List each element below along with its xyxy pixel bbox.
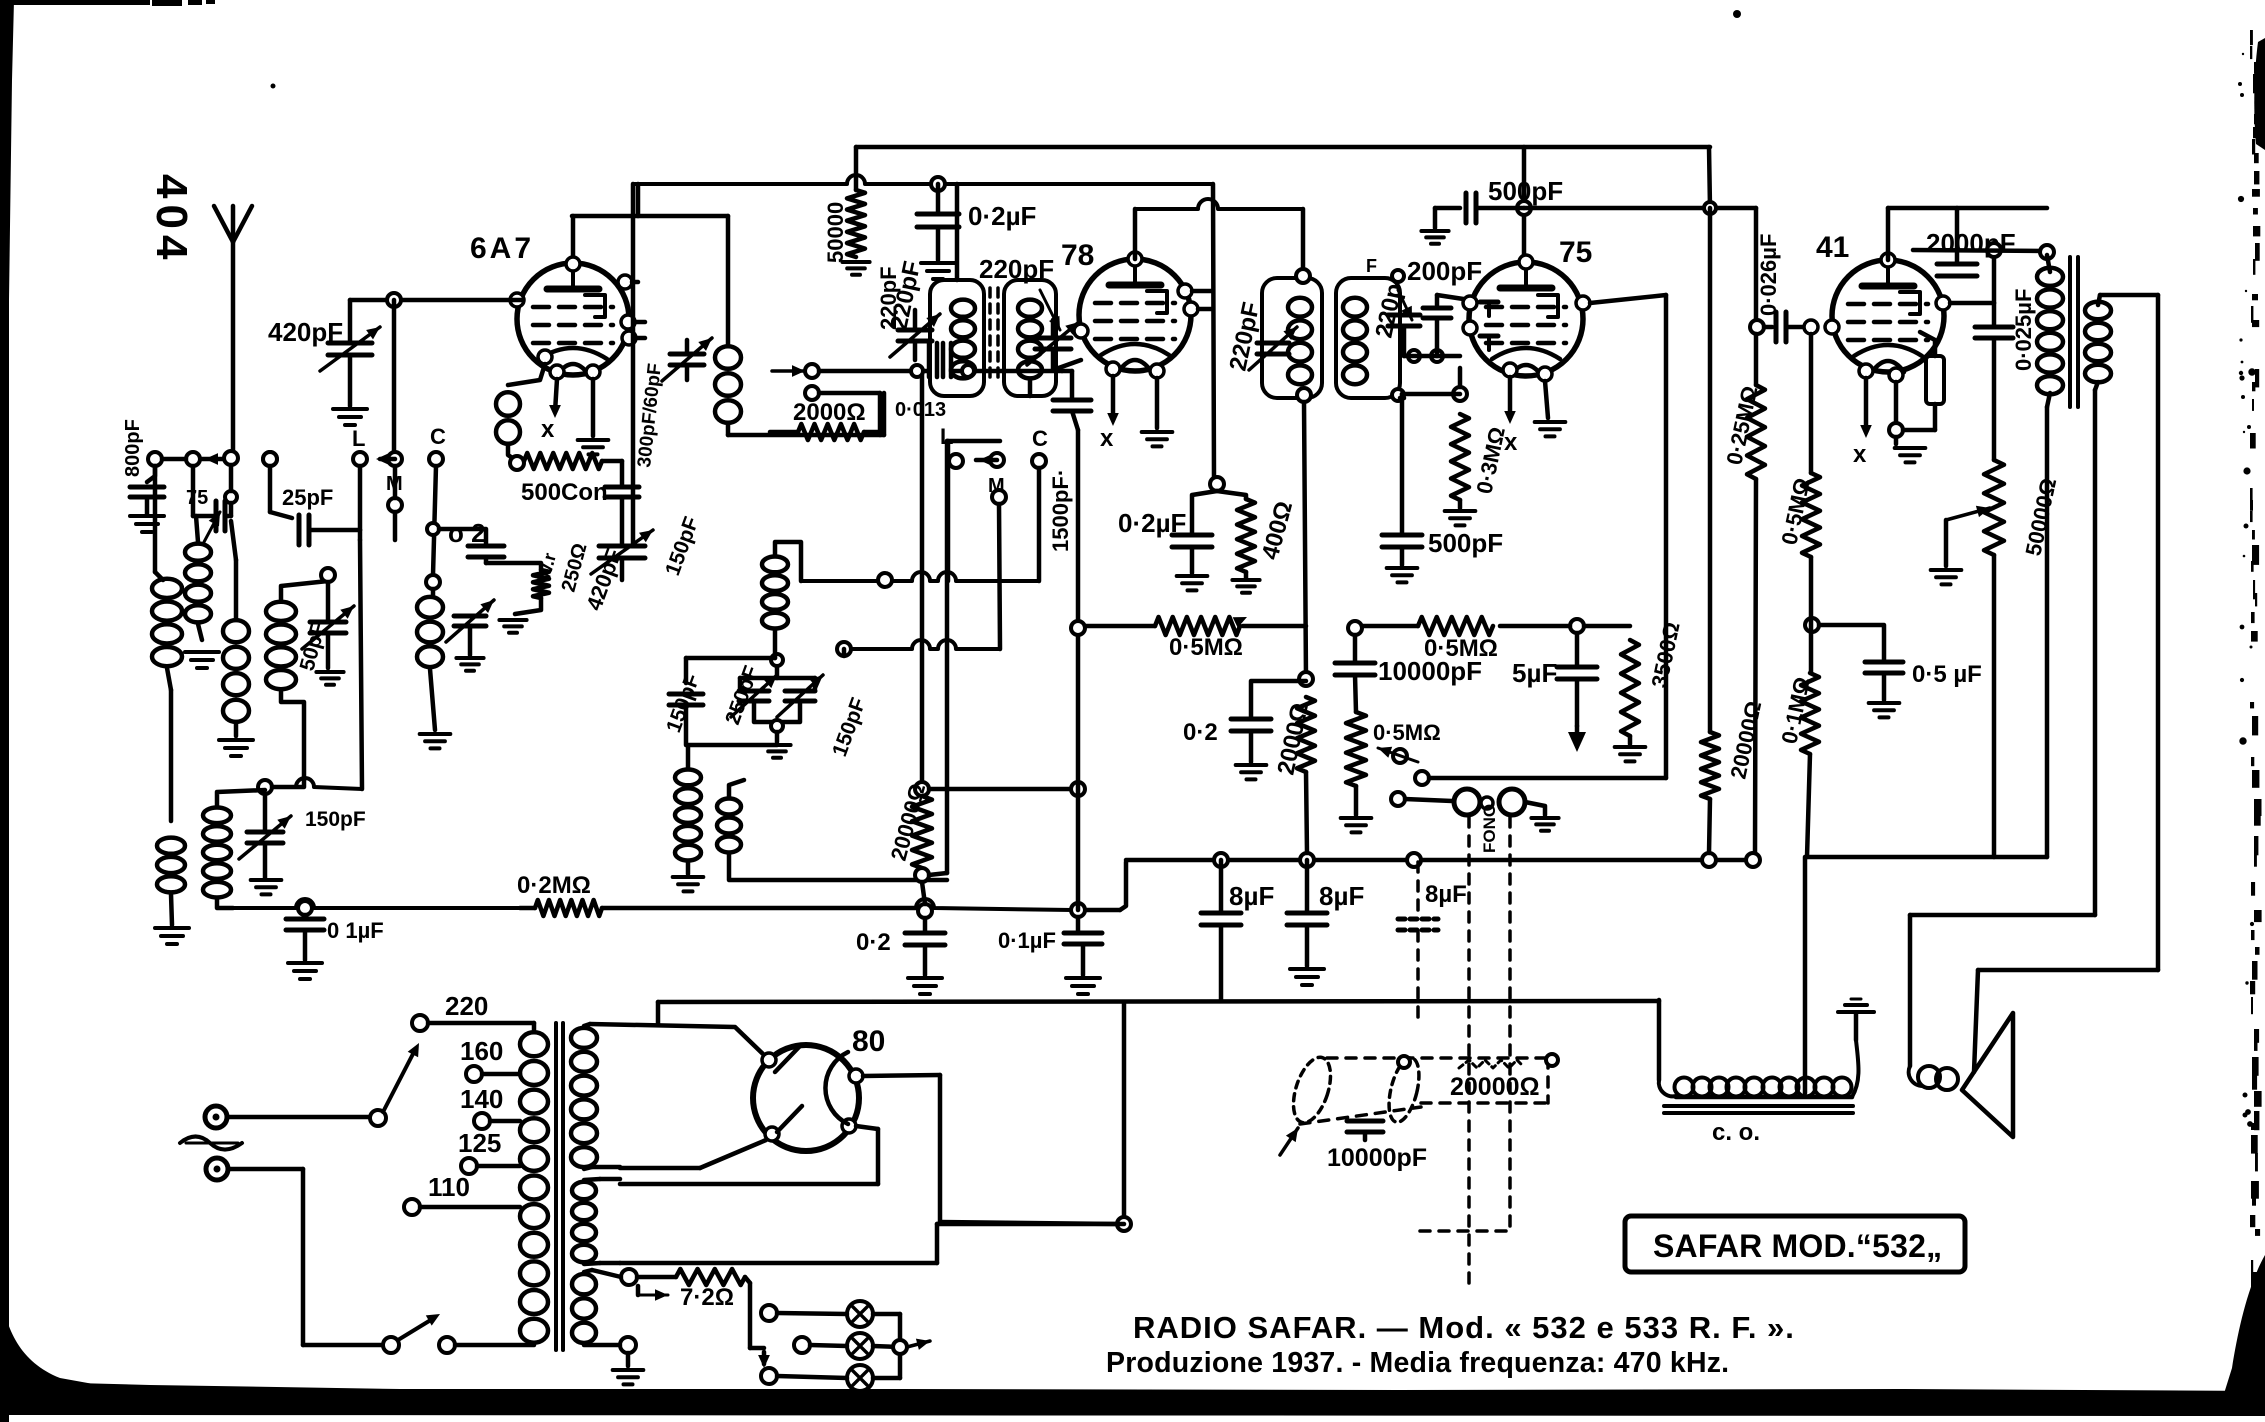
svg-text:x: x — [541, 416, 555, 443]
svg-text:C: C — [430, 424, 446, 449]
svg-text:500pF: 500pF — [1428, 528, 1503, 558]
svg-text:10000pF: 10000pF — [1378, 656, 1482, 686]
svg-text:25pF: 25pF — [282, 485, 333, 510]
svg-text:10000pF: 10000pF — [1327, 1144, 1427, 1172]
svg-text:0·2MΩ: 0·2MΩ — [517, 872, 591, 899]
svg-text:0·5MΩ: 0·5MΩ — [1373, 720, 1441, 745]
svg-text:0·025µF: 0·025µF — [2011, 289, 2036, 371]
svg-text:75: 75 — [1559, 236, 1592, 269]
svg-text:FONO: FONO — [1480, 804, 1499, 853]
svg-text:0·026µF: 0·026µF — [1756, 234, 1781, 316]
svg-text:80: 80 — [852, 1025, 885, 1058]
svg-text:c. o.: c. o. — [1712, 1119, 1760, 1146]
svg-text:420pF: 420pF — [268, 317, 343, 347]
svg-text:x: x — [1853, 441, 1867, 468]
svg-text:0·5MΩ: 0·5MΩ — [1169, 634, 1243, 661]
svg-text:78: 78 — [1061, 239, 1094, 272]
svg-text:0·2µF: 0·2µF — [1118, 508, 1186, 538]
svg-text:RADIO SAFAR. — Mod. « 532 e 53: RADIO SAFAR. — Mod. « 532 e 533 R. F. ». — [1133, 1310, 1795, 1345]
svg-text:C: C — [1032, 426, 1048, 451]
svg-text:125: 125 — [458, 1128, 501, 1158]
svg-text:8µF: 8µF — [1425, 881, 1467, 908]
svg-text:8µF: 8µF — [1229, 881, 1274, 911]
svg-text:41: 41 — [1816, 231, 1849, 264]
svg-text:0·2: 0·2 — [1183, 719, 1218, 746]
svg-text:7·2Ω: 7·2Ω — [680, 1284, 734, 1311]
svg-text:8µF: 8µF — [1319, 881, 1364, 911]
svg-text:220: 220 — [445, 991, 488, 1021]
svg-text:0·2µF: 0·2µF — [968, 201, 1036, 231]
svg-text:150pF: 150pF — [305, 808, 366, 831]
svg-text:SAFAR MOD.“532„: SAFAR MOD.“532„ — [1653, 1228, 1942, 1264]
svg-text:20000Ω: 20000Ω — [1450, 1073, 1540, 1101]
svg-text:0·2: 0·2 — [856, 929, 891, 956]
svg-text:1500pF·: 1500pF· — [1048, 469, 1073, 552]
svg-text:220pF: 220pF — [979, 254, 1054, 284]
svg-text:200pF: 200pF — [1407, 256, 1482, 286]
svg-text:5µF: 5µF — [1512, 658, 1557, 688]
svg-text:160: 160 — [460, 1036, 503, 1066]
svg-text:0·1µF: 0·1µF — [998, 928, 1056, 953]
svg-text:75: 75 — [186, 487, 208, 509]
svg-text:500Con: 500Con — [521, 479, 608, 506]
svg-text:50000: 50000 — [823, 202, 848, 263]
svg-text:110: 110 — [428, 1172, 470, 1202]
svg-text:L: L — [352, 426, 365, 451]
svg-text:F: F — [1366, 256, 1377, 276]
svg-text:0·013: 0·013 — [895, 399, 946, 421]
svg-text:800pF: 800pF — [122, 419, 144, 477]
svg-text:6A7: 6A7 — [470, 232, 534, 265]
svg-text:500pF: 500pF — [1488, 176, 1563, 206]
svg-text:0·5 µF: 0·5 µF — [1912, 661, 1982, 688]
svg-text:Produzione 1937. - Media frequ: Produzione 1937. - Media frequenza: 470 … — [1106, 1347, 1729, 1379]
svg-text:x: x — [1100, 425, 1114, 452]
svg-text:140: 140 — [460, 1084, 503, 1114]
svg-text:0 1µF: 0 1µF — [327, 918, 384, 943]
svg-text:404: 404 — [147, 174, 196, 265]
